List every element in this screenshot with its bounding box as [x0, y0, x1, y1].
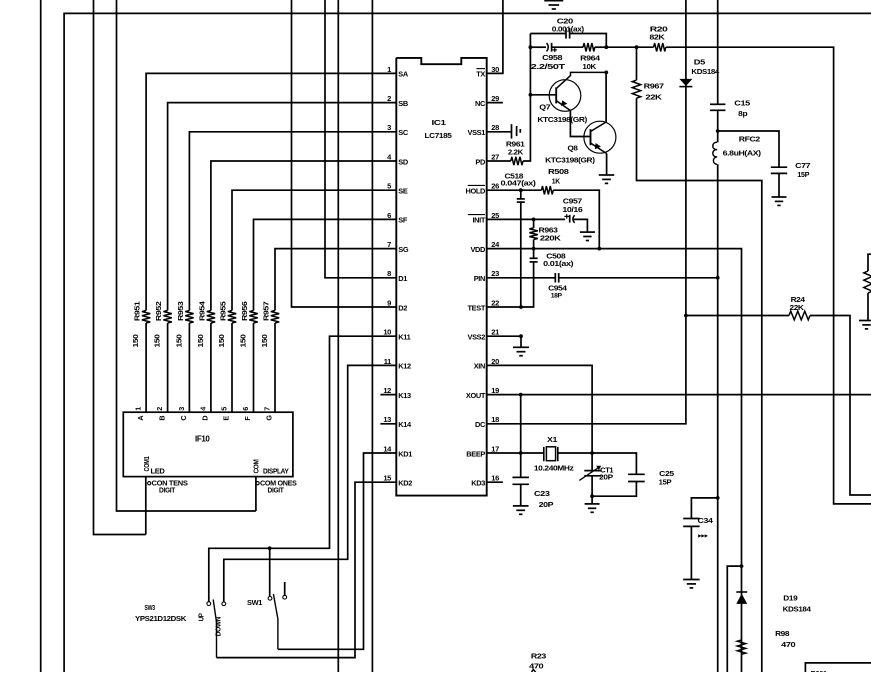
junction R508 bottom: [597, 247, 601, 251]
svg-text:Q8: Q8: [568, 143, 578, 152]
label pin name TX: [476, 69, 485, 79]
svg-text:SG: SG: [398, 245, 409, 254]
label 150 value 6: [239, 334, 248, 347]
label pin name K13: [398, 391, 411, 400]
wire segment net SD pin 4: [211, 161, 396, 311]
svg-text:6: 6: [387, 211, 391, 220]
label pin 26 number: [491, 182, 499, 191]
svg-text:SD: SD: [398, 157, 409, 166]
label pin name NC: [475, 99, 486, 108]
svg-text:TX: TX: [476, 70, 485, 79]
label pin 3 number: [387, 123, 391, 132]
wire pin 16 KD3 stub: [487, 481, 503, 483]
label DIGIT left: [159, 486, 176, 495]
label R20: [650, 25, 668, 34]
label pin name PIN: [474, 274, 485, 283]
ground top rail: [544, 1, 563, 9]
wire crystal right lead: [558, 452, 592, 454]
svg-text:VDD: VDD: [470, 245, 486, 254]
junction Q7 base: [529, 93, 533, 97]
label pin name D1: [398, 274, 407, 283]
wire Q8 emitter down: [606, 154, 608, 176]
wire pin 23 PIN right: [559, 277, 718, 279]
svg-text:SE: SE: [398, 187, 408, 196]
label IF10 pin number 5: [220, 407, 229, 411]
svg-text:IC1: IC1: [432, 118, 447, 127]
svg-text:17: 17: [491, 444, 499, 453]
wire COM return bus: [117, 0, 256, 511]
svg-text:PD: PD: [475, 157, 486, 166]
wire RFC2 down: [717, 164, 719, 672]
svg-text:C: C: [179, 416, 188, 421]
label C77: [795, 161, 810, 170]
label 22K R24: [790, 303, 805, 312]
wire R955 to display: [231, 323, 233, 412]
transistor Q8 base bar: [590, 129, 592, 145]
svg-text:22K: 22K: [645, 93, 662, 102]
wire pin 21 VSS2: [487, 335, 521, 337]
label D19: [783, 594, 797, 603]
switch SW3 UP lever: [213, 600, 216, 658]
label SW3: [144, 603, 155, 612]
resistor R953: [185, 311, 193, 324]
svg-text:UP: UP: [197, 613, 206, 621]
svg-text:0.01(ax): 0.01(ax): [543, 259, 574, 268]
label pin name SD: [398, 157, 409, 166]
svg-text:K11: K11: [398, 333, 410, 342]
ground Q8 emitter: [599, 175, 615, 183]
wire C25 branch: [592, 453, 636, 474]
svg-text:XOUT: XOUT: [466, 391, 486, 400]
wire Q8 collector up: [605, 72, 607, 122]
svg-text:R957: R957: [262, 301, 271, 321]
resistor far right: [864, 254, 871, 320]
label R98: [775, 629, 789, 638]
label pin name XIN: [474, 362, 485, 371]
wire COM1 lead: [145, 477, 147, 535]
svg-text:KD1: KD1: [398, 449, 412, 458]
svg-text:C15: C15: [734, 98, 750, 107]
label pin 11 number: [384, 357, 391, 366]
svg-text:XIN: XIN: [474, 362, 485, 371]
svg-text:D5: D5: [694, 57, 705, 66]
svg-text:C77: C77: [795, 161, 810, 170]
label 220K: [540, 233, 562, 242]
label R952: [154, 301, 163, 321]
svg-text:SW3: SW3: [144, 603, 155, 612]
label COM1: [144, 456, 151, 471]
switch SW1 right stub: [284, 582, 286, 595]
label R967: [644, 82, 664, 91]
label CON TENS: [152, 479, 189, 488]
svg-text:150: 150: [131, 334, 140, 347]
svg-text:7: 7: [387, 240, 391, 249]
resistor R955: [228, 311, 236, 324]
resistor R508: [542, 186, 554, 194]
label pin name SB: [398, 99, 408, 108]
svg-text:150: 150: [260, 334, 269, 347]
svg-text:1: 1: [387, 65, 391, 74]
wire C20 left: [530, 33, 566, 35]
wire C77 branch: [718, 131, 779, 167]
svg-text:7: 7: [263, 407, 272, 411]
wire R963 top lead: [533, 219, 535, 228]
label IF10 pin number 1: [134, 407, 143, 411]
label pin name TEST: [468, 303, 486, 312]
svg-text:82K: 82K: [649, 33, 665, 42]
svg-text:DISPLAY: DISPLAY: [263, 466, 289, 475]
svg-text:SC: SC: [398, 128, 409, 137]
svg-text:C25: C25: [659, 469, 674, 478]
label KTC3198(GR) Q8: [545, 155, 595, 164]
label RFC2: [739, 135, 760, 144]
label Q7: [539, 102, 550, 111]
svg-text:▸▸▸: ▸▸▸: [697, 532, 708, 539]
wire pin 11 K12 net to DOWN: [224, 365, 396, 601]
svg-text:KTC3198(GR): KTC3198(GR): [537, 115, 587, 124]
label pin 6 number: [387, 211, 391, 220]
label pin name XOUT: [466, 391, 486, 400]
svg-text:15P: 15P: [659, 478, 672, 487]
label pin 27 number: [491, 152, 499, 161]
svg-text:VSS2: VSS2: [468, 333, 486, 342]
label 2.2K: [508, 147, 524, 156]
svg-text:LC7185: LC7185: [425, 131, 453, 140]
junction C958 left: [529, 45, 533, 49]
wire Q7 base: [530, 94, 556, 96]
label pin 25 number: [491, 211, 499, 220]
label UP: [197, 613, 206, 621]
svg-text:K14: K14: [398, 420, 412, 429]
svg-text:15P: 15P: [797, 170, 809, 179]
label C957: [563, 196, 582, 205]
junction crystal left: [519, 451, 523, 455]
junction CT1 bottom: [590, 494, 594, 498]
svg-text:25: 25: [491, 211, 499, 220]
label pin 5 number: [387, 182, 391, 191]
label 18P: [551, 293, 563, 300]
svg-text:D1: D1: [398, 274, 407, 283]
resistor R956: [249, 311, 257, 324]
label C15: [734, 98, 750, 107]
junction R964 right: [604, 45, 608, 49]
label pin 12 number: [383, 386, 391, 395]
ground C34: [683, 580, 700, 588]
wire segment net SA pin 1: [146, 73, 396, 310]
label 15P C25: [659, 478, 672, 487]
label pin name K14: [398, 420, 412, 429]
label pin 18 number: [491, 415, 499, 424]
wire pin 22 TEST: [487, 306, 521, 308]
svg-text:12: 12: [383, 386, 391, 395]
label pin 9 number: [387, 298, 391, 307]
label IF10 pin letter A: [136, 416, 145, 421]
wire C25 return: [592, 482, 636, 497]
wire C15 column top: [717, 0, 719, 104]
svg-text:5: 5: [387, 182, 391, 191]
svg-text:20: 20: [491, 357, 499, 366]
label 150 value 1: [131, 334, 140, 347]
junction crystal right: [590, 451, 594, 455]
label IF10 pin number 3: [177, 407, 186, 411]
ground C957: [580, 232, 595, 240]
label pin 29 number: [491, 94, 499, 103]
svg-text:R956: R956: [240, 301, 249, 321]
junction C518 top: [519, 188, 523, 192]
svg-text:13: 13: [383, 415, 391, 424]
label R955: [219, 301, 228, 321]
wire vertical bus B: [371, 0, 373, 672]
box bottom right: [805, 663, 871, 672]
label KTC3198(GR) Q7: [537, 115, 587, 124]
wire segment net SG pin 7: [275, 249, 396, 311]
wire R24 row: [686, 315, 789, 317]
label IF10 pin letter B: [157, 416, 166, 421]
svg-text:16: 16: [491, 474, 499, 483]
svg-text:DIGIT: DIGIT: [159, 486, 176, 495]
label C20: [557, 17, 573, 26]
label pin 16 number: [491, 474, 499, 483]
label CT1: [600, 465, 613, 474]
wire C958 to R964: [552, 46, 584, 48]
wire R954 to display: [210, 323, 212, 412]
wire C77 to ground: [778, 173, 780, 197]
label pin 8 number: [387, 269, 391, 278]
resistor R952: [163, 311, 171, 324]
wire R24 to right edge: [810, 316, 871, 496]
label DIGIT right: [268, 486, 285, 495]
junction R967 top: [635, 45, 639, 49]
label pin name K12: [398, 362, 411, 371]
label R508: [548, 167, 569, 176]
wire vertical bus A: [337, 0, 339, 672]
diode D19: [736, 592, 747, 604]
svg-text:470: 470: [781, 640, 795, 649]
svg-text:D: D: [201, 416, 210, 421]
junction TEST: [519, 305, 523, 309]
label pin 28 number: [491, 123, 499, 132]
wire pin 17 BEEP: [487, 452, 521, 454]
svg-text:X1: X1: [547, 435, 557, 444]
label IF10 pin letter C: [179, 416, 188, 421]
transistor Q7 body: [549, 80, 581, 112]
svg-text:4: 4: [198, 407, 207, 411]
svg-text:26: 26: [491, 182, 499, 191]
label YPS21D12DSK: [135, 614, 187, 623]
svg-text:E: E: [222, 416, 231, 421]
svg-text:470: 470: [529, 661, 543, 670]
label SW1: [247, 598, 262, 607]
label pin name SE: [398, 187, 408, 196]
capacitor C25: [628, 474, 645, 481]
label pin name PD: [475, 157, 486, 166]
wire pin 19 XOUT: [487, 394, 871, 396]
label pin 4 number: [387, 152, 392, 161]
svg-text:9: 9: [387, 298, 391, 307]
switch SW1 right terminal: [283, 595, 287, 599]
svg-text:2: 2: [155, 407, 164, 411]
wire segment net SB pin 2: [168, 103, 397, 311]
label C34 stars: [697, 532, 708, 539]
transistor Q8 body: [584, 121, 616, 153]
svg-text:30: 30: [491, 65, 499, 74]
wire C15 to RFC2: [717, 110, 719, 142]
label pin 14 number: [383, 444, 392, 453]
label pin 20 number: [491, 357, 499, 366]
svg-text:R953: R953: [176, 301, 185, 321]
switch SW1 wire from junction: [269, 548, 271, 596]
label pin 24 number: [491, 240, 500, 249]
label pin 22 number: [491, 298, 499, 307]
svg-text:150: 150: [196, 334, 205, 347]
junction R963 top: [532, 218, 536, 222]
wire pin 30 TX net: [487, 0, 503, 73]
wire R956 to display: [253, 323, 255, 412]
wire R957 to display: [274, 323, 276, 412]
switch SW1 left terminal: [268, 596, 272, 600]
svg-text:A: A: [136, 416, 145, 421]
capacitor CT1 variable: [579, 453, 601, 496]
label R24: [791, 295, 805, 304]
resistor R951: [142, 311, 150, 324]
svg-text:10: 10: [383, 328, 391, 337]
ground far right: [859, 321, 871, 329]
ground VSS2: [513, 347, 529, 355]
wire VSS2 to ground: [520, 336, 522, 347]
wire CT1 to ground: [591, 496, 593, 504]
label pin name DC: [475, 420, 486, 429]
diode D5: [679, 79, 692, 87]
wire R964 to junction: [595, 46, 607, 48]
svg-text:KD3: KD3: [471, 479, 485, 488]
svg-text:C34: C34: [698, 516, 714, 525]
label C23: [534, 489, 550, 498]
junction VSS2: [519, 334, 523, 338]
label KDS184 D19: [783, 605, 812, 614]
wire pin 12 K13 stub: [380, 394, 396, 396]
svg-text:23: 23: [491, 269, 499, 278]
display connector IF10 box: [123, 412, 293, 476]
resistor R24: [789, 311, 810, 320]
resistor R98: [737, 640, 745, 654]
label 8p: [738, 109, 748, 118]
svg-text:3: 3: [387, 123, 391, 132]
svg-text:K12: K12: [398, 362, 411, 371]
ground C77: [772, 197, 787, 205]
svg-text:22: 22: [491, 298, 499, 307]
svg-text:27: 27: [491, 152, 499, 161]
transistor Q7 emitter: [556, 100, 570, 110]
wire pin 24 VDD: [487, 249, 742, 672]
resistor R20: [654, 43, 666, 51]
label KDS184 D5: [691, 67, 720, 76]
wire Q7 emitter to Q8 base: [570, 111, 590, 137]
svg-text:150: 150: [217, 334, 226, 347]
label DOWN: [214, 617, 223, 637]
svg-text:YPS21D12DSK: YPS21D12DSK: [135, 614, 187, 623]
wire D5 net: [487, 0, 686, 424]
label C508: [546, 252, 565, 261]
label R964: [580, 53, 601, 62]
transistor Q8 emitter: [591, 143, 607, 154]
resistor R967: [632, 80, 640, 98]
wire R952 to display: [167, 323, 169, 412]
capacitor C518: [517, 190, 525, 307]
svg-text:HOLD: HOLD: [465, 187, 486, 196]
resistor R964: [583, 43, 595, 51]
label 22K: [645, 93, 662, 102]
svg-text:29: 29: [491, 94, 499, 103]
label LC7185: [425, 131, 453, 140]
wire C34 branch: [691, 498, 717, 519]
svg-text:KDS184: KDS184: [691, 67, 720, 76]
capacitor C958 polarized: [547, 43, 557, 52]
wire R961 to C20 column: [523, 34, 530, 162]
junction R24 row at D5 line: [684, 314, 688, 318]
svg-text:6.8uH(AX): 6.8uH(AX): [723, 148, 762, 157]
svg-text:R508: R508: [548, 167, 569, 176]
label pin 19 number: [491, 386, 499, 395]
label pin name VSS1: [468, 128, 486, 137]
svg-text:24: 24: [491, 240, 500, 249]
svg-text:18P: 18P: [551, 293, 563, 300]
svg-text:14: 14: [383, 444, 392, 453]
label pin name SC: [398, 128, 409, 137]
wire pin 28 VSS1: [487, 131, 512, 133]
svg-text:SF: SF: [398, 216, 408, 225]
svg-text:BEEP: BEEP: [466, 449, 485, 458]
wire pin 20 XIN: [487, 365, 592, 453]
wire crystal left lead: [521, 452, 544, 454]
label R951: [133, 301, 142, 321]
junction XOUT: [519, 393, 523, 397]
svg-text:2.2/50T: 2.2/50T: [531, 62, 566, 71]
label pin name KD2: [398, 479, 412, 488]
wire segment net SC pin 3: [189, 132, 396, 311]
label pin 1 number: [387, 65, 391, 74]
svg-text:R98: R98: [775, 629, 789, 638]
svg-text:0.001(ax): 0.001(ax): [552, 24, 585, 33]
svg-text:RFC2: RFC2: [739, 135, 760, 144]
wire R967 bottom: [637, 98, 762, 672]
label R956: [240, 301, 249, 321]
label 150 value 2: [153, 334, 162, 347]
label 10K: [582, 62, 597, 71]
resistor R963: [529, 228, 537, 240]
wire pin 9 D2 net: [292, 0, 397, 307]
label bottom box: [811, 669, 828, 677]
wire pin 15 KD2 net to UP: [217, 482, 397, 657]
capacitor C77: [771, 167, 787, 173]
IC U1 LC7185 outline: [396, 58, 486, 496]
label pin 21 number: [491, 328, 499, 337]
svg-text:TEST: TEST: [468, 303, 486, 312]
svg-text:1K: 1K: [552, 177, 561, 186]
svg-text:D19: D19: [783, 594, 797, 603]
label IF10 pin letter E: [222, 416, 231, 421]
label IF10 pin number 7: [263, 407, 272, 411]
resistor R954: [207, 311, 215, 324]
wire C957 to ground: [573, 219, 588, 232]
svg-text:DOWN: DOWN: [214, 617, 223, 637]
wire pin 29 NC stub: [487, 102, 503, 104]
wire pin 23 PIN left: [487, 277, 556, 279]
label C34: [698, 516, 714, 525]
svg-text:KD2: KD2: [398, 479, 412, 488]
svg-text:28: 28: [491, 123, 499, 132]
svg-text:150: 150: [174, 334, 183, 347]
svg-text:15: 15: [383, 474, 391, 483]
